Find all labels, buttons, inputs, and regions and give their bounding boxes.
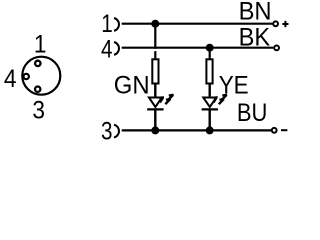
terminal circle BU (272, 128, 277, 133)
pin 4 contact (24, 74, 29, 79)
LED1 flash arrow small top bar (159, 96, 164, 99)
wire line 3 (BU) (122, 129, 271, 131)
pin 4 socket arc (114, 42, 119, 55)
branch 1 wire upper (154, 24, 156, 60)
junction node line1/branch1 (151, 20, 159, 28)
svg-text:3: 3 (101, 116, 112, 140)
svg-text:BU: BU (237, 99, 268, 127)
plus sign BN (282, 21, 288, 27)
junction node line3/branch1 (151, 126, 159, 134)
svg-text:3: 3 (32, 96, 45, 124)
LED2 flash bolt upper bar (222, 94, 227, 97)
LED2 flash bolt lower leg (219, 99, 224, 104)
LED1 flash bolt upper leg (169, 95, 174, 100)
LED2 cathode bar (202, 108, 218, 110)
minus sign BU (281, 129, 287, 131)
LED1 flash bolt lower bar (166, 98, 171, 101)
LED1 flash bolt lower leg (165, 99, 170, 104)
pin 3 contact (35, 87, 40, 92)
branch 2 wire upper (209, 48, 211, 60)
LED1 flash arrow small leg (160, 98, 163, 103)
LED1 flash bolt upper bar (169, 94, 174, 97)
LED1 cathode bar (147, 108, 163, 110)
LED2 flash bolt upper leg (222, 95, 227, 100)
pin 1 contact (35, 61, 40, 66)
terminal circle BN (273, 21, 278, 26)
LED2 flash arrow small top bar (212, 96, 217, 99)
wire line 2 (BK) (122, 47, 274, 49)
R1 to LED1 wire (154, 83, 156, 97)
svg-text:4: 4 (101, 34, 113, 62)
svg-text:GN: GN (114, 71, 150, 99)
R2 to LED2 wire (208, 83, 210, 97)
terminal circle BK (274, 46, 279, 51)
resistor R2 (206, 59, 212, 83)
LED2 to line3 wire (208, 109, 210, 130)
svg-text:BN: BN (239, 0, 272, 26)
LED2 triangle (203, 98, 216, 108)
svg-text:BK: BK (239, 23, 271, 51)
pin 3 socket arc (114, 125, 119, 138)
junction node line2/branch2 (206, 44, 214, 52)
LED1 triangle (149, 98, 162, 108)
svg-text:4: 4 (4, 65, 17, 93)
svg-text:1: 1 (34, 30, 47, 58)
LED2 flash bolt lower bar (220, 98, 225, 101)
svg-text:1: 1 (101, 9, 112, 37)
wire line 1 (BN) (122, 23, 273, 25)
pin 1 socket arc (114, 18, 119, 31)
LED2 flash arrow small leg (214, 98, 217, 103)
resistor R1 (152, 59, 158, 83)
LED1 to line3 wire (154, 109, 156, 130)
junction node line3/branch2 (206, 126, 214, 134)
connector J1 face view (22, 57, 60, 95)
